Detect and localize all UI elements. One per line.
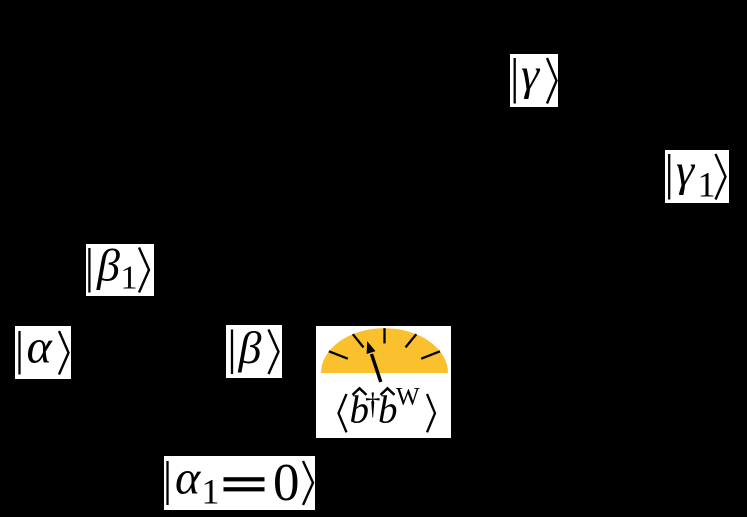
meter yellow dial xyxy=(321,328,448,373)
state label |beta> xyxy=(226,325,282,378)
svg-text:1: 1 xyxy=(698,165,716,204)
svg-text:0: 0 xyxy=(273,456,300,510)
svg-text:β: β xyxy=(96,244,120,291)
detector meter box xyxy=(316,326,451,438)
svg-text:γ: γ xyxy=(676,150,696,196)
state label |alpha> xyxy=(15,326,71,379)
state label |beta_1> xyxy=(86,244,154,296)
svg-text:β: β xyxy=(238,325,262,373)
svg-text:1: 1 xyxy=(121,260,138,297)
meter label <b†b^w> xyxy=(339,384,436,433)
meter tick marks xyxy=(329,328,440,359)
svg-text:α: α xyxy=(175,456,201,505)
svg-text:γ: γ xyxy=(521,54,541,100)
svg-text:α: α xyxy=(27,326,53,374)
svg-text:W: W xyxy=(396,384,420,411)
svg-text:1: 1 xyxy=(202,472,220,511)
state label |alpha_1 = 0> xyxy=(164,456,315,510)
state label |gamma_1> xyxy=(665,150,729,203)
svg-text:b: b xyxy=(378,389,398,432)
state label |gamma> xyxy=(510,54,558,107)
meter needle xyxy=(367,341,381,382)
